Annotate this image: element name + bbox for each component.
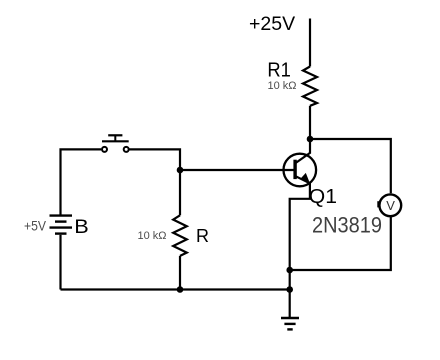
wire: base node down to R top bbox=[179, 170, 181, 215]
resistor R1 bbox=[303, 67, 317, 106]
svg-text:10 kΩ: 10 kΩ bbox=[268, 80, 297, 92]
wire: switch right terminal to base node corner bbox=[129, 149, 180, 170]
resistor R bbox=[173, 215, 187, 256]
wire: voltmeter bottom down and left to emitter rail bbox=[290, 217, 391, 270]
junction dot: base node bbox=[177, 167, 184, 174]
pushbutton switch bbox=[102, 135, 129, 152]
wire: base node to Q1 base bbox=[180, 169, 294, 171]
wire: bottom rail bbox=[61, 288, 290, 290]
svg-text:B: B bbox=[74, 217, 89, 238]
wire: R1 bottom to node A bbox=[309, 106, 311, 139]
svg-text:Q1: Q1 bbox=[309, 185, 337, 208]
svg-text:+5V: +5V bbox=[24, 219, 46, 234]
svg-text:R1: R1 bbox=[267, 60, 291, 82]
svg-text:+25V: +25V bbox=[249, 13, 295, 35]
svg-text:2N3819: 2N3819 bbox=[312, 212, 382, 237]
voltmeter VM1 bbox=[378, 194, 401, 216]
svg-text:V: V bbox=[386, 198, 395, 213]
wire: battery top up and right to switch left terminal bbox=[61, 149, 102, 215]
svg-text:10 kΩ: 10 kΩ bbox=[138, 230, 167, 242]
junction dot: R bottom on rail bbox=[177, 286, 184, 293]
wire: +25V supply down to R1 top bbox=[309, 19, 311, 67]
wire: R bottom to rail bbox=[179, 256, 181, 290]
battery B bbox=[50, 216, 73, 234]
ground bbox=[281, 318, 299, 329]
svg-text:R: R bbox=[196, 226, 209, 246]
junction dot: voltmeter return on emitter rail bbox=[286, 267, 293, 274]
transistor Q1 bbox=[284, 153, 317, 187]
wire: emitter step down to ground rail bbox=[290, 182, 310, 319]
junction dot: bottom rail at ground column bbox=[286, 286, 293, 293]
node A junction dot bbox=[307, 136, 314, 143]
wire: node A right to voltmeter top bbox=[310, 139, 391, 193]
wire: battery bottom down to rail bbox=[59, 235, 61, 290]
wire: collector stub from node A down to Q1 bbox=[309, 139, 311, 154]
